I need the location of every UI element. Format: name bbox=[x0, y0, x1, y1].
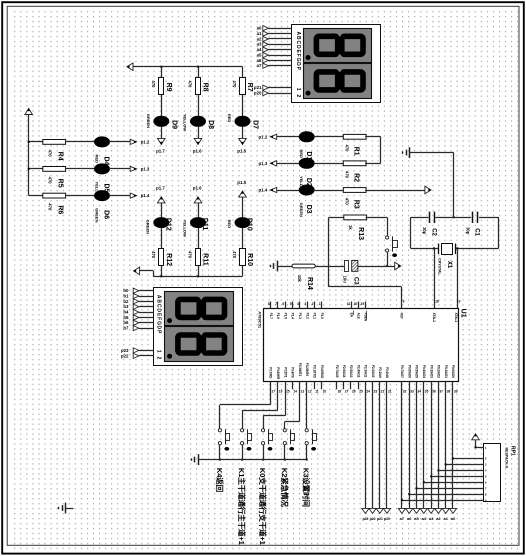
svg-text:P0.2/AD2: P0.2/AD2 bbox=[437, 365, 441, 378]
svg-text:18: 18 bbox=[435, 300, 439, 304]
svg-text:P1.1: P1.1 bbox=[313, 313, 317, 319]
svg-text:10: 10 bbox=[323, 389, 327, 393]
svg-text:P3.6/WR: P3.6/WR bbox=[276, 367, 280, 380]
svg-text:a2: a2 bbox=[257, 36, 262, 41]
svg-text:D12: D12 bbox=[164, 218, 171, 231]
svg-text:P1.5: P1.5 bbox=[283, 313, 287, 319]
svg-text:p1.2: p1.2 bbox=[141, 140, 150, 145]
svg-text:D6: D6 bbox=[102, 210, 109, 219]
svg-text:31: 31 bbox=[347, 302, 351, 306]
svg-text:p22: p22 bbox=[121, 353, 129, 358]
svg-text:470: 470 bbox=[151, 251, 156, 259]
svg-text:P2.1/A9: P2.1/A9 bbox=[378, 367, 382, 378]
svg-text:RED: RED bbox=[94, 155, 99, 164]
svg-text:33: 33 bbox=[410, 389, 414, 393]
svg-text:P1.6: P1.6 bbox=[276, 313, 280, 319]
svg-text:4: 4 bbox=[297, 302, 299, 306]
svg-text:D10: D10 bbox=[245, 218, 252, 231]
svg-text:1k: 1k bbox=[348, 225, 353, 230]
svg-text:32: 32 bbox=[403, 389, 407, 393]
svg-text:R5: R5 bbox=[57, 179, 64, 188]
svg-text:38: 38 bbox=[447, 389, 451, 393]
svg-text:P3.5/T1: P3.5/T1 bbox=[283, 367, 287, 378]
svg-text:P1.2: P1.2 bbox=[305, 313, 309, 319]
svg-text:P2.0/A8: P2.0/A8 bbox=[385, 367, 389, 378]
svg-text:p1.4: p1.4 bbox=[141, 193, 150, 198]
svg-text:AT89C51: AT89C51 bbox=[257, 311, 262, 329]
svg-text:b2: b2 bbox=[123, 299, 129, 304]
svg-text:1: 1 bbox=[155, 350, 161, 353]
svg-text:10k: 10k bbox=[297, 275, 302, 283]
svg-text:XTAL2: XTAL2 bbox=[432, 313, 436, 323]
svg-text:p1.5: p1.5 bbox=[237, 180, 246, 185]
svg-text:P2.2/A10: P2.2/A10 bbox=[371, 365, 375, 378]
svg-text:P0.3/AD3: P0.3/AD3 bbox=[429, 365, 433, 378]
svg-text:a7: a7 bbox=[257, 63, 262, 68]
svg-text:b4: b4 bbox=[123, 310, 129, 315]
svg-text:R2: R2 bbox=[352, 173, 359, 182]
svg-text:b1: b1 bbox=[123, 293, 129, 298]
svg-text:a0: a0 bbox=[257, 26, 262, 31]
svg-text:21: 21 bbox=[388, 389, 392, 393]
svg-text:a6: a6 bbox=[407, 516, 412, 521]
svg-text:34: 34 bbox=[418, 389, 422, 393]
svg-text:16: 16 bbox=[279, 389, 283, 393]
svg-text:R10: R10 bbox=[246, 253, 253, 266]
svg-text:XTAL1: XTAL1 bbox=[454, 313, 458, 323]
svg-text:P3.7/RD: P3.7/RD bbox=[269, 367, 273, 379]
svg-text:K2紧急情况: K2紧急情况 bbox=[280, 468, 290, 507]
svg-text:13: 13 bbox=[301, 389, 305, 393]
svg-text:b5: b5 bbox=[123, 315, 129, 320]
svg-text:R8: R8 bbox=[201, 83, 208, 92]
svg-text:P2.5/A13: P2.5/A13 bbox=[349, 365, 353, 378]
svg-text:470: 470 bbox=[48, 203, 53, 211]
svg-text:DP: DP bbox=[295, 62, 301, 71]
svg-text:C2: C2 bbox=[430, 228, 436, 236]
svg-text:RED: RED bbox=[227, 114, 232, 123]
svg-text:a3: a3 bbox=[429, 516, 434, 521]
svg-text:R1: R1 bbox=[352, 147, 359, 156]
svg-text:p1.3: p1.3 bbox=[141, 167, 150, 172]
svg-text:35: 35 bbox=[425, 389, 429, 393]
svg-text:p1.4: p1.4 bbox=[259, 188, 268, 193]
svg-text:a2: a2 bbox=[436, 516, 441, 521]
svg-text:D11: D11 bbox=[201, 218, 208, 231]
svg-text:470: 470 bbox=[344, 145, 349, 153]
svg-text:P0.1/AD1: P0.1/AD1 bbox=[444, 365, 448, 378]
svg-text:R4: R4 bbox=[57, 152, 64, 161]
svg-text:23: 23 bbox=[374, 389, 378, 393]
svg-text:DP: DP bbox=[155, 326, 161, 335]
svg-text:25: 25 bbox=[359, 389, 363, 393]
svg-text:a3: a3 bbox=[257, 42, 262, 47]
svg-text:26: 26 bbox=[352, 389, 356, 393]
svg-text:2: 2 bbox=[312, 302, 314, 306]
svg-text:30p: 30p bbox=[422, 227, 427, 235]
svg-text:28: 28 bbox=[338, 389, 342, 393]
svg-text:b7: b7 bbox=[123, 326, 129, 331]
svg-text:P0.6/AD6: P0.6/AD6 bbox=[407, 365, 411, 378]
svg-text:14: 14 bbox=[293, 389, 297, 393]
svg-text:6: 6 bbox=[282, 302, 284, 306]
svg-text:P1.7: P1.7 bbox=[269, 313, 273, 319]
svg-text:1: 1 bbox=[319, 302, 321, 306]
svg-text:p1.5: p1.5 bbox=[237, 149, 246, 154]
svg-text:a6: a6 bbox=[257, 58, 262, 63]
svg-text:GREEN: GREEN bbox=[146, 220, 151, 234]
svg-text:p1.2: p1.2 bbox=[259, 134, 268, 139]
svg-text:P3.2/INT0: P3.2/INT0 bbox=[305, 363, 309, 377]
svg-text:a1: a1 bbox=[443, 516, 448, 521]
svg-text:b0: b0 bbox=[123, 288, 129, 293]
svg-text:YELLOW: YELLOW bbox=[183, 114, 188, 131]
svg-text:D9: D9 bbox=[170, 120, 177, 129]
svg-text:P0.4/AD4: P0.4/AD4 bbox=[422, 365, 426, 378]
svg-text:R3: R3 bbox=[352, 200, 359, 209]
svg-text:p23: p23 bbox=[121, 348, 129, 353]
svg-text:RED: RED bbox=[299, 149, 304, 158]
svg-text:470: 470 bbox=[48, 150, 53, 158]
svg-text:b6: b6 bbox=[123, 320, 129, 325]
svg-text:GREEN: GREEN bbox=[299, 203, 304, 217]
svg-text:P0.0/AD0: P0.0/AD0 bbox=[451, 365, 455, 378]
svg-text:470: 470 bbox=[232, 81, 237, 89]
svg-text:RST: RST bbox=[400, 313, 404, 319]
svg-text:p1.6: p1.6 bbox=[193, 149, 202, 154]
svg-text:ALE: ALE bbox=[356, 313, 360, 319]
svg-text:470: 470 bbox=[344, 198, 349, 206]
svg-text:8: 8 bbox=[268, 302, 270, 306]
svg-text:CRYSTAL: CRYSTAL bbox=[437, 258, 441, 275]
svg-text:p20: p20 bbox=[254, 91, 262, 96]
svg-text:P2.4/A12: P2.4/A12 bbox=[356, 365, 360, 378]
svg-text:22: 22 bbox=[381, 389, 385, 393]
svg-text:R11: R11 bbox=[201, 253, 208, 266]
svg-text:p1.7: p1.7 bbox=[156, 149, 165, 154]
svg-text:R6: R6 bbox=[57, 205, 64, 214]
svg-text:15: 15 bbox=[286, 389, 290, 393]
svg-text:YELLOW: YELLOW bbox=[182, 220, 187, 237]
svg-text:a5: a5 bbox=[414, 516, 419, 521]
svg-text:p22: p22 bbox=[370, 517, 376, 521]
svg-text:30: 30 bbox=[354, 302, 358, 306]
svg-text:P0.5/AD5: P0.5/AD5 bbox=[415, 365, 419, 378]
svg-text:R13: R13 bbox=[357, 227, 364, 240]
svg-text:K1主干道通行主干道+1: K1主干道通行主干道+1 bbox=[237, 468, 247, 546]
svg-text:p1.7: p1.7 bbox=[156, 185, 165, 190]
svg-text:12: 12 bbox=[308, 389, 312, 393]
svg-text:1: 1 bbox=[295, 88, 301, 91]
svg-text:D3: D3 bbox=[305, 205, 312, 214]
svg-text:p1.6: p1.6 bbox=[193, 185, 202, 190]
svg-text:27: 27 bbox=[345, 389, 349, 393]
svg-text:K0支干道通行支干道+1: K0支干道通行支干道+1 bbox=[258, 468, 268, 546]
svg-text:b3: b3 bbox=[123, 304, 129, 309]
svg-text:7: 7 bbox=[275, 302, 277, 306]
svg-text:X1: X1 bbox=[446, 261, 452, 269]
svg-text:K4返回: K4返回 bbox=[215, 468, 225, 493]
svg-text:D8: D8 bbox=[207, 120, 214, 129]
svg-text:a0: a0 bbox=[451, 516, 456, 521]
svg-text:p23: p23 bbox=[362, 517, 368, 521]
svg-text:R14: R14 bbox=[306, 277, 313, 290]
svg-text:P2.6/A14: P2.6/A14 bbox=[342, 365, 346, 378]
svg-text:5: 5 bbox=[290, 302, 292, 306]
svg-text:P1.0: P1.0 bbox=[320, 313, 324, 319]
svg-text:9: 9 bbox=[403, 300, 405, 304]
svg-text:RED: RED bbox=[227, 220, 232, 229]
svg-text:a4: a4 bbox=[422, 516, 427, 521]
svg-text:P1.4: P1.4 bbox=[291, 313, 295, 319]
svg-text:p20: p20 bbox=[384, 517, 390, 521]
svg-text:a5: a5 bbox=[257, 52, 262, 57]
svg-text:ABCDEFG: ABCDEFG bbox=[295, 32, 301, 63]
svg-text:U1: U1 bbox=[460, 309, 467, 318]
svg-text:p21: p21 bbox=[254, 85, 262, 90]
svg-text:2: 2 bbox=[155, 357, 161, 360]
svg-text:470: 470 bbox=[151, 81, 156, 89]
svg-text:3: 3 bbox=[304, 302, 306, 306]
svg-text:p21: p21 bbox=[377, 517, 383, 521]
svg-text:37: 37 bbox=[439, 389, 443, 393]
svg-text:P2.7/A15: P2.7/A15 bbox=[335, 365, 339, 378]
svg-text:11: 11 bbox=[315, 389, 319, 393]
svg-text:P3.1/TXD: P3.1/TXD bbox=[312, 365, 316, 379]
svg-text:C1: C1 bbox=[474, 228, 480, 236]
svg-text:R7: R7 bbox=[246, 83, 253, 92]
svg-text:470: 470 bbox=[48, 177, 53, 185]
svg-text:29: 29 bbox=[361, 302, 365, 306]
svg-text:P0.7/AD7: P0.7/AD7 bbox=[400, 365, 404, 378]
svg-text:39: 39 bbox=[454, 389, 458, 393]
svg-text:P3.4/T0: P3.4/T0 bbox=[291, 367, 295, 378]
svg-text:a4: a4 bbox=[257, 47, 262, 52]
svg-text:RESPACK-8: RESPACK-8 bbox=[505, 447, 509, 468]
svg-text:GREEN: GREEN bbox=[146, 114, 151, 128]
svg-text:470: 470 bbox=[232, 251, 237, 259]
svg-text:D7: D7 bbox=[252, 120, 259, 129]
svg-text:a1: a1 bbox=[257, 31, 262, 36]
svg-text:17: 17 bbox=[272, 389, 276, 393]
svg-text:P3.3/INT1: P3.3/INT1 bbox=[298, 363, 302, 377]
svg-text:470: 470 bbox=[344, 171, 349, 179]
svg-text:ABCDEFG: ABCDEFG bbox=[155, 295, 161, 326]
svg-text:10u: 10u bbox=[343, 276, 348, 284]
svg-text:P1.3: P1.3 bbox=[298, 313, 302, 319]
svg-text:RP1: RP1 bbox=[510, 446, 516, 456]
svg-text:36: 36 bbox=[432, 389, 436, 393]
svg-text:R12: R12 bbox=[165, 253, 172, 266]
svg-text:470: 470 bbox=[188, 81, 193, 89]
svg-text:2: 2 bbox=[295, 95, 301, 98]
svg-text:GREEN: GREEN bbox=[94, 208, 99, 222]
svg-text:19: 19 bbox=[457, 300, 461, 304]
svg-text:P3.0/RXD: P3.0/RXD bbox=[320, 365, 324, 379]
svg-text:24: 24 bbox=[366, 389, 370, 393]
svg-text:30p: 30p bbox=[466, 227, 471, 235]
svg-text:C3: C3 bbox=[352, 277, 358, 285]
svg-text:P2.3/A11: P2.3/A11 bbox=[364, 365, 368, 378]
svg-text:R9: R9 bbox=[165, 83, 172, 92]
svg-text:p1.3: p1.3 bbox=[259, 161, 268, 166]
svg-text:470: 470 bbox=[188, 251, 193, 259]
svg-text:a7: a7 bbox=[400, 516, 405, 521]
svg-text:K3设置时间: K3设置时间 bbox=[302, 468, 312, 507]
